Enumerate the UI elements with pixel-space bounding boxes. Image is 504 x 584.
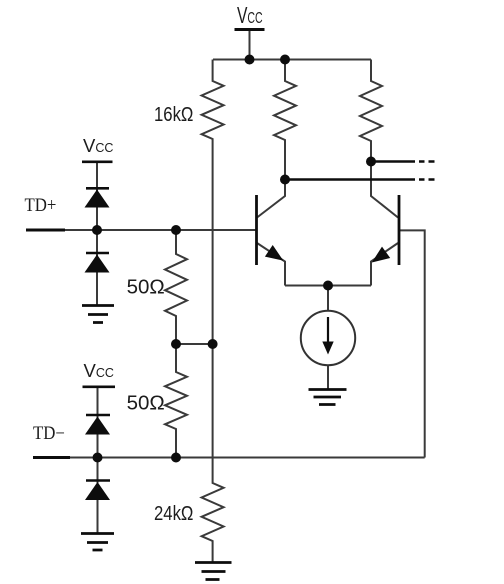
svg-text:16kΩ: 16kΩ [154,102,193,125]
svg-text:50Ω: 50Ω [127,391,165,414]
svg-text:TD−: TD− [33,422,65,443]
svg-text:50Ω: 50Ω [127,275,165,298]
svg-text:24kΩ: 24kΩ [154,501,193,524]
svg-text:TD+: TD+ [25,194,57,215]
